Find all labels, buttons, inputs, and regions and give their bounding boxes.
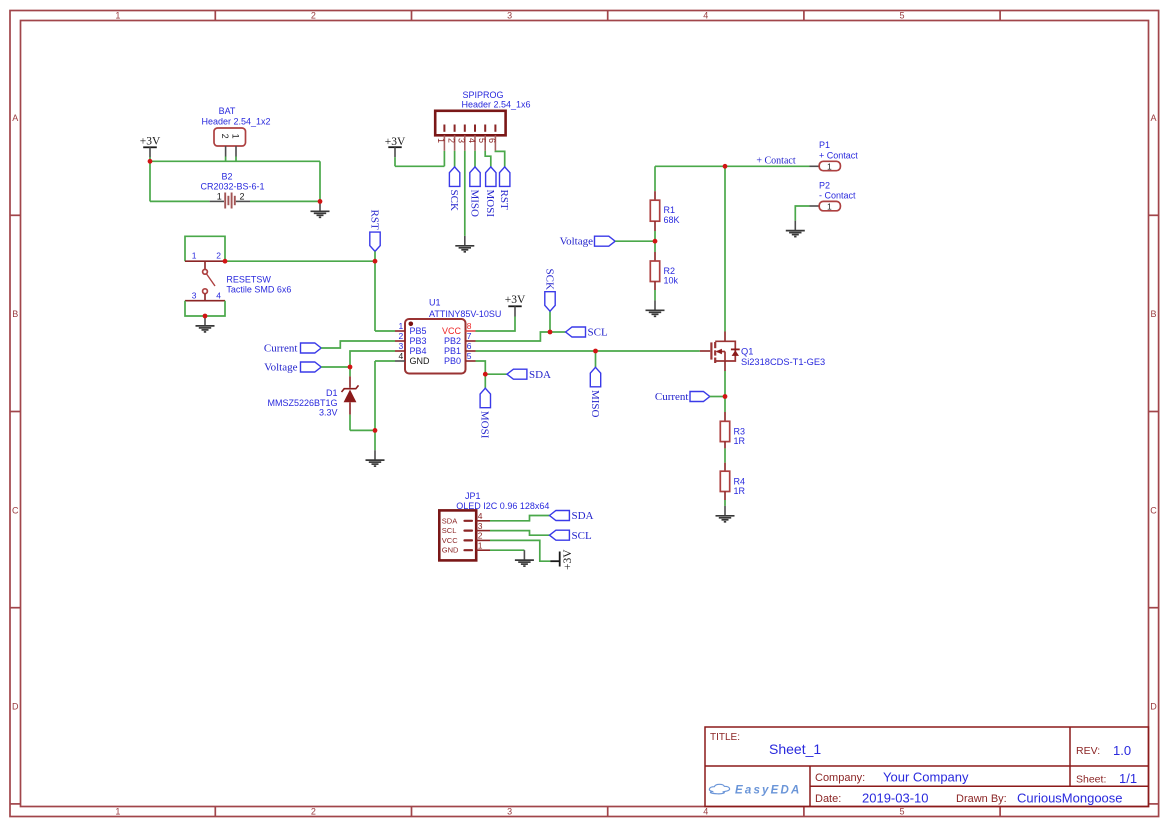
junction (battery negative node) <box>318 199 323 204</box>
svg-text:A: A <box>12 113 18 123</box>
svg-text:Si2318CDS-T1-GE3: Si2318CDS-T1-GE3 <box>741 357 825 367</box>
svg-text:1: 1 <box>230 134 240 139</box>
svg-text:3: 3 <box>478 521 483 531</box>
junction (RESETSW pin2) <box>223 259 228 264</box>
svg-text:MOSI: MOSI <box>479 411 491 439</box>
svg-text:BAT: BAT <box>219 106 236 116</box>
svg-text:2: 2 <box>399 331 404 341</box>
wire RESETSW pin2 to RST net <box>225 260 375 262</box>
svg-text:Sheet:: Sheet: <box>1076 774 1106 786</box>
net flag MOSI (under U1) <box>479 388 491 439</box>
svg-text:R1: R1 <box>664 205 676 215</box>
svg-text:3.3V: 3.3V <box>319 407 338 417</box>
wire SPIPROG pin2 to SCK flag <box>454 151 456 167</box>
svg-text:2: 2 <box>478 531 483 541</box>
svg-text:1: 1 <box>478 540 483 550</box>
wire JP1 pin4 to SDA flag <box>490 516 550 521</box>
svg-text:5: 5 <box>477 138 487 143</box>
svg-text:1: 1 <box>436 138 446 143</box>
resistor R3 1R <box>720 397 745 449</box>
svg-text:B2: B2 <box>221 172 232 182</box>
svg-text:GND: GND <box>410 356 431 366</box>
net flag Current (at Q1) <box>655 391 710 403</box>
svg-text:TITLE:: TITLE: <box>710 732 740 743</box>
svg-text:R4: R4 <box>734 476 746 486</box>
svg-text:Date:: Date: <box>815 793 841 805</box>
svg-text:1/1: 1/1 <box>1119 771 1137 786</box>
power flag +3V (JP1) <box>550 549 574 570</box>
svg-text:5: 5 <box>467 351 472 361</box>
svg-text:C: C <box>1150 505 1157 515</box>
IC U1 ATTINY85V-10SU <box>395 298 501 374</box>
svg-text:R2: R2 <box>664 266 676 276</box>
wire MISO node to MISO flag <box>595 351 597 367</box>
svg-text:Header 2.54_1x2: Header 2.54_1x2 <box>201 117 270 127</box>
wire Voltage flag to R1/R2 junction <box>615 240 655 242</box>
wire GND node to ground <box>374 430 376 450</box>
svg-text:Current: Current <box>264 343 298 355</box>
wire junction up to U1 PB4 <box>350 351 395 367</box>
svg-text:4: 4 <box>703 11 708 21</box>
ground (P2) <box>786 221 805 237</box>
svg-text:MMSZ5226BT1G: MMSZ5226BT1G <box>267 398 337 408</box>
svg-text:1R: 1R <box>734 486 746 496</box>
svg-text:68K: 68K <box>664 215 680 225</box>
svg-text:VCC: VCC <box>442 326 462 336</box>
svg-text:R3: R3 <box>734 427 746 437</box>
svg-text:2: 2 <box>311 11 316 21</box>
svg-text:2019-03-10: 2019-03-10 <box>862 791 929 806</box>
junction (MISO node on PB1) <box>593 349 598 354</box>
power flag +3V (SPIPROG) <box>385 136 406 157</box>
wire Current flag to junction <box>710 396 725 398</box>
svg-text:5: 5 <box>899 11 904 21</box>
svg-text:PB0: PB0 <box>444 356 461 366</box>
svg-text:SDA: SDA <box>572 510 594 522</box>
svg-text:VCC: VCC <box>442 536 458 545</box>
pin P2 - Contact <box>810 180 857 211</box>
junction (SDA/MOSI node) <box>483 372 488 377</box>
svg-text:1R: 1R <box>734 436 746 446</box>
connector SPIPROG (Header 2.54_1x6) <box>435 90 530 151</box>
svg-text:B: B <box>1150 309 1156 319</box>
wire RST flag to junction <box>374 251 376 261</box>
svg-text:SPIPROG: SPIPROG <box>462 90 503 100</box>
wire R4 to ground <box>724 500 726 506</box>
ground (RESETSW) <box>196 316 215 332</box>
junction (SCK/SCL node) <box>548 330 553 335</box>
svg-text:+ Contact: + Contact <box>819 150 858 160</box>
junction (+3V node) <box>148 159 153 164</box>
svg-text:1.0: 1.0 <box>1113 743 1131 758</box>
net flag SCK (under SPIPROG) <box>448 167 460 211</box>
svg-text:3: 3 <box>399 341 404 351</box>
wire +3V to SPIPROG pin1 <box>395 151 444 167</box>
junction (Voltage divider node) <box>653 239 658 244</box>
svg-text:MISO: MISO <box>468 190 480 218</box>
svg-text:Company:: Company: <box>815 772 865 784</box>
svg-text:PB5: PB5 <box>410 326 427 336</box>
net flag MISO (under SPIPROG) <box>468 167 480 217</box>
resistor R4 1R <box>720 463 745 500</box>
ground (R4) <box>716 506 735 522</box>
wire +3V to BAT net <box>150 157 320 202</box>
net flag Voltage (left) <box>264 362 321 374</box>
wire JP1 pin1 to ground <box>490 549 524 551</box>
svg-text:1: 1 <box>217 192 222 202</box>
svg-text:1: 1 <box>827 201 832 211</box>
svg-text:Voltage: Voltage <box>264 362 298 374</box>
svg-text:D1: D1 <box>326 388 338 398</box>
svg-text:+3V: +3V <box>140 136 161 148</box>
svg-text:MOSI: MOSI <box>484 190 496 218</box>
ground (U1/D1) <box>366 450 385 466</box>
wire Voltage flag to junction <box>321 366 350 368</box>
svg-text:SCK: SCK <box>448 190 460 211</box>
connector JP1 OLED I2C 0.96 128x64 <box>439 491 549 560</box>
power flag +3V (battery) <box>140 136 161 157</box>
net flag SCK (above U1) <box>543 269 555 312</box>
svg-text:SCK: SCK <box>543 269 555 290</box>
svg-text:4: 4 <box>399 351 404 361</box>
svg-text:Header 2.54_1x6: Header 2.54_1x6 <box>461 100 530 110</box>
svg-text:4: 4 <box>478 511 483 521</box>
svg-text:Tactile SMD 6x6: Tactile SMD 6x6 <box>226 284 291 294</box>
wire junction up to SCK flag <box>549 311 551 332</box>
svg-text:3: 3 <box>457 138 467 143</box>
svg-text:+3V: +3V <box>385 136 406 148</box>
svg-text:RST: RST <box>368 210 380 230</box>
net flag SCL (at JP1) <box>550 530 592 542</box>
svg-text:1: 1 <box>827 161 832 171</box>
ground (battery) <box>311 201 330 217</box>
svg-text:B: B <box>12 309 18 319</box>
svg-text:PB3: PB3 <box>410 336 427 346</box>
svg-text:10k: 10k <box>664 275 679 285</box>
svg-text:REV:: REV: <box>1076 745 1100 757</box>
svg-text:EasyEDA: EasyEDA <box>735 785 802 797</box>
ground (SPIPROG pin3) <box>455 236 474 252</box>
svg-text:Current: Current <box>655 391 689 403</box>
svg-text:1: 1 <box>192 251 197 261</box>
svg-text:3: 3 <box>192 290 197 300</box>
svg-text:P1: P1 <box>819 140 830 150</box>
net flag Current (left) <box>264 343 321 355</box>
svg-text:D: D <box>1150 702 1157 712</box>
wire SPIPROG pin4 to MISO flag <box>474 151 476 167</box>
wire Q1 source to Current junction <box>724 371 726 397</box>
svg-text:6: 6 <box>467 341 472 351</box>
svg-text:4: 4 <box>467 138 477 143</box>
svg-text:+ Contact: + Contact <box>756 156 795 167</box>
svg-text:JP1: JP1 <box>465 491 481 501</box>
svg-text:4: 4 <box>703 807 708 817</box>
wire junction to SDA flag <box>485 373 507 375</box>
svg-text:SDA: SDA <box>529 369 551 381</box>
EasyEDA logo <box>709 784 801 796</box>
svg-text:2: 2 <box>220 134 230 139</box>
wire junction to SCL flag <box>550 331 566 333</box>
svg-text:1: 1 <box>115 11 120 21</box>
svg-text:Voltage: Voltage <box>560 236 594 248</box>
svg-text:U1: U1 <box>429 298 441 308</box>
junction (+ Contact node) <box>723 164 728 169</box>
title block texts <box>710 732 1137 806</box>
pin P1 + Contact <box>810 140 859 171</box>
wire SPIPROG pin3 to ground <box>464 151 466 236</box>
svg-text:SCL: SCL <box>442 526 457 535</box>
svg-text:P2: P2 <box>819 180 830 190</box>
svg-text:2: 2 <box>446 138 456 143</box>
wire SPIPROG pin6 to RST flag <box>495 151 504 167</box>
net flag RST (under SPIPROG) <box>498 167 510 210</box>
wire SPIPROG pin5 to MOSI flag <box>485 151 491 167</box>
svg-text:ATTINY85V-10SU: ATTINY85V-10SU <box>429 309 501 319</box>
tactile switch RESETSW <box>185 236 291 316</box>
wire Current flag to U1 PB3 <box>321 341 395 348</box>
transistor Q1 Si2318CDS-T1-GE3 <box>700 332 825 372</box>
resistor R1 68K <box>650 166 679 241</box>
svg-text:+3V: +3V <box>562 549 574 570</box>
title block outline <box>705 727 1149 807</box>
svg-text:5: 5 <box>899 807 904 817</box>
svg-text:3: 3 <box>507 11 512 21</box>
net flag SDA (right of junction) <box>507 369 551 381</box>
svg-text:7: 7 <box>467 331 472 341</box>
wire U1 PB1 to Q1 gate <box>476 350 700 352</box>
wire JP1 pin3 to SCL flag <box>490 531 550 536</box>
wire U1 PB0 to SDA/MOSI junction <box>476 361 486 374</box>
svg-text:RST: RST <box>498 190 510 210</box>
wire RST node down to U1 pin1 <box>375 261 395 331</box>
battery B2 CR2032-BS-6-1 <box>200 172 264 209</box>
svg-text:PB4: PB4 <box>410 346 427 356</box>
svg-text:2: 2 <box>216 251 221 261</box>
net flag MISO (under PB1 wire) <box>589 367 601 417</box>
svg-text:3: 3 <box>507 807 512 817</box>
junction (RESETSW pin4 / ground) <box>203 314 208 319</box>
zener diode D1 MMSZ5226BT1G <box>267 367 358 430</box>
junction (GND node near D1) <box>373 428 378 433</box>
net flag Voltage (at R1/R2) <box>560 236 616 248</box>
svg-text:Q1: Q1 <box>741 347 753 357</box>
wire top net R1/P1/Q1 <box>655 166 810 331</box>
svg-text:C: C <box>12 505 19 515</box>
svg-text:4: 4 <box>216 290 221 300</box>
svg-text:Sheet_1: Sheet_1 <box>769 741 821 757</box>
svg-text:A: A <box>1150 113 1156 123</box>
svg-text:PB2: PB2 <box>444 336 461 346</box>
svg-text:SDA: SDA <box>442 516 457 525</box>
svg-text:RESETSW: RESETSW <box>226 275 271 285</box>
ground (JP1) <box>515 550 534 566</box>
net flag SCL (right of U1) <box>566 327 608 339</box>
svg-text:CuriousMongoose: CuriousMongoose <box>1017 791 1123 806</box>
wire D1 anode to GND junction <box>350 429 375 431</box>
wire U1 VCC to +3V <box>476 317 516 332</box>
net flag SDA (at JP1) <box>550 510 594 522</box>
svg-text:1: 1 <box>115 807 120 817</box>
wire R3 to R4 <box>724 448 726 462</box>
svg-text:8: 8 <box>467 321 472 331</box>
svg-text:CR2032-BS-6-1: CR2032-BS-6-1 <box>200 182 264 192</box>
svg-text:Your Company: Your Company <box>883 770 969 785</box>
svg-text:1: 1 <box>399 321 404 331</box>
svg-text:2: 2 <box>311 807 316 817</box>
svg-text:6: 6 <box>487 138 497 143</box>
junction (Voltage/D1 node) <box>348 365 353 370</box>
svg-text:- Contact: - Contact <box>819 191 856 201</box>
svg-text:Drawn By:: Drawn By: <box>956 793 1007 805</box>
svg-text:PB1: PB1 <box>444 346 461 356</box>
power flag +3V (U1 VCC) <box>505 294 526 317</box>
svg-text:MISO: MISO <box>589 390 601 418</box>
connector BAT (Header 2.54_1x2) <box>201 106 270 157</box>
wire U1 PB2 to SCK/SCL junction <box>476 332 551 341</box>
net flag RST (at RESETSW) <box>368 210 380 252</box>
wire P2 to ground <box>795 206 809 221</box>
svg-text:+3V: +3V <box>505 294 526 306</box>
svg-text:GND: GND <box>442 546 459 555</box>
junction (RST node) <box>373 259 378 264</box>
ground (R2) <box>646 300 665 316</box>
svg-text:SCL: SCL <box>588 327 608 339</box>
wire U1 GND to ground net <box>375 361 395 430</box>
wire junction down to MOSI flag <box>484 374 486 388</box>
junction (Current node) <box>723 394 728 399</box>
svg-text:D: D <box>12 702 19 712</box>
wire JP1 pin2 to +3V <box>490 540 550 561</box>
resistor R2 10k <box>650 241 678 300</box>
svg-text:SCL: SCL <box>572 530 592 542</box>
svg-text:2: 2 <box>240 192 245 202</box>
net flag MOSI (under SPIPROG) <box>484 167 496 217</box>
